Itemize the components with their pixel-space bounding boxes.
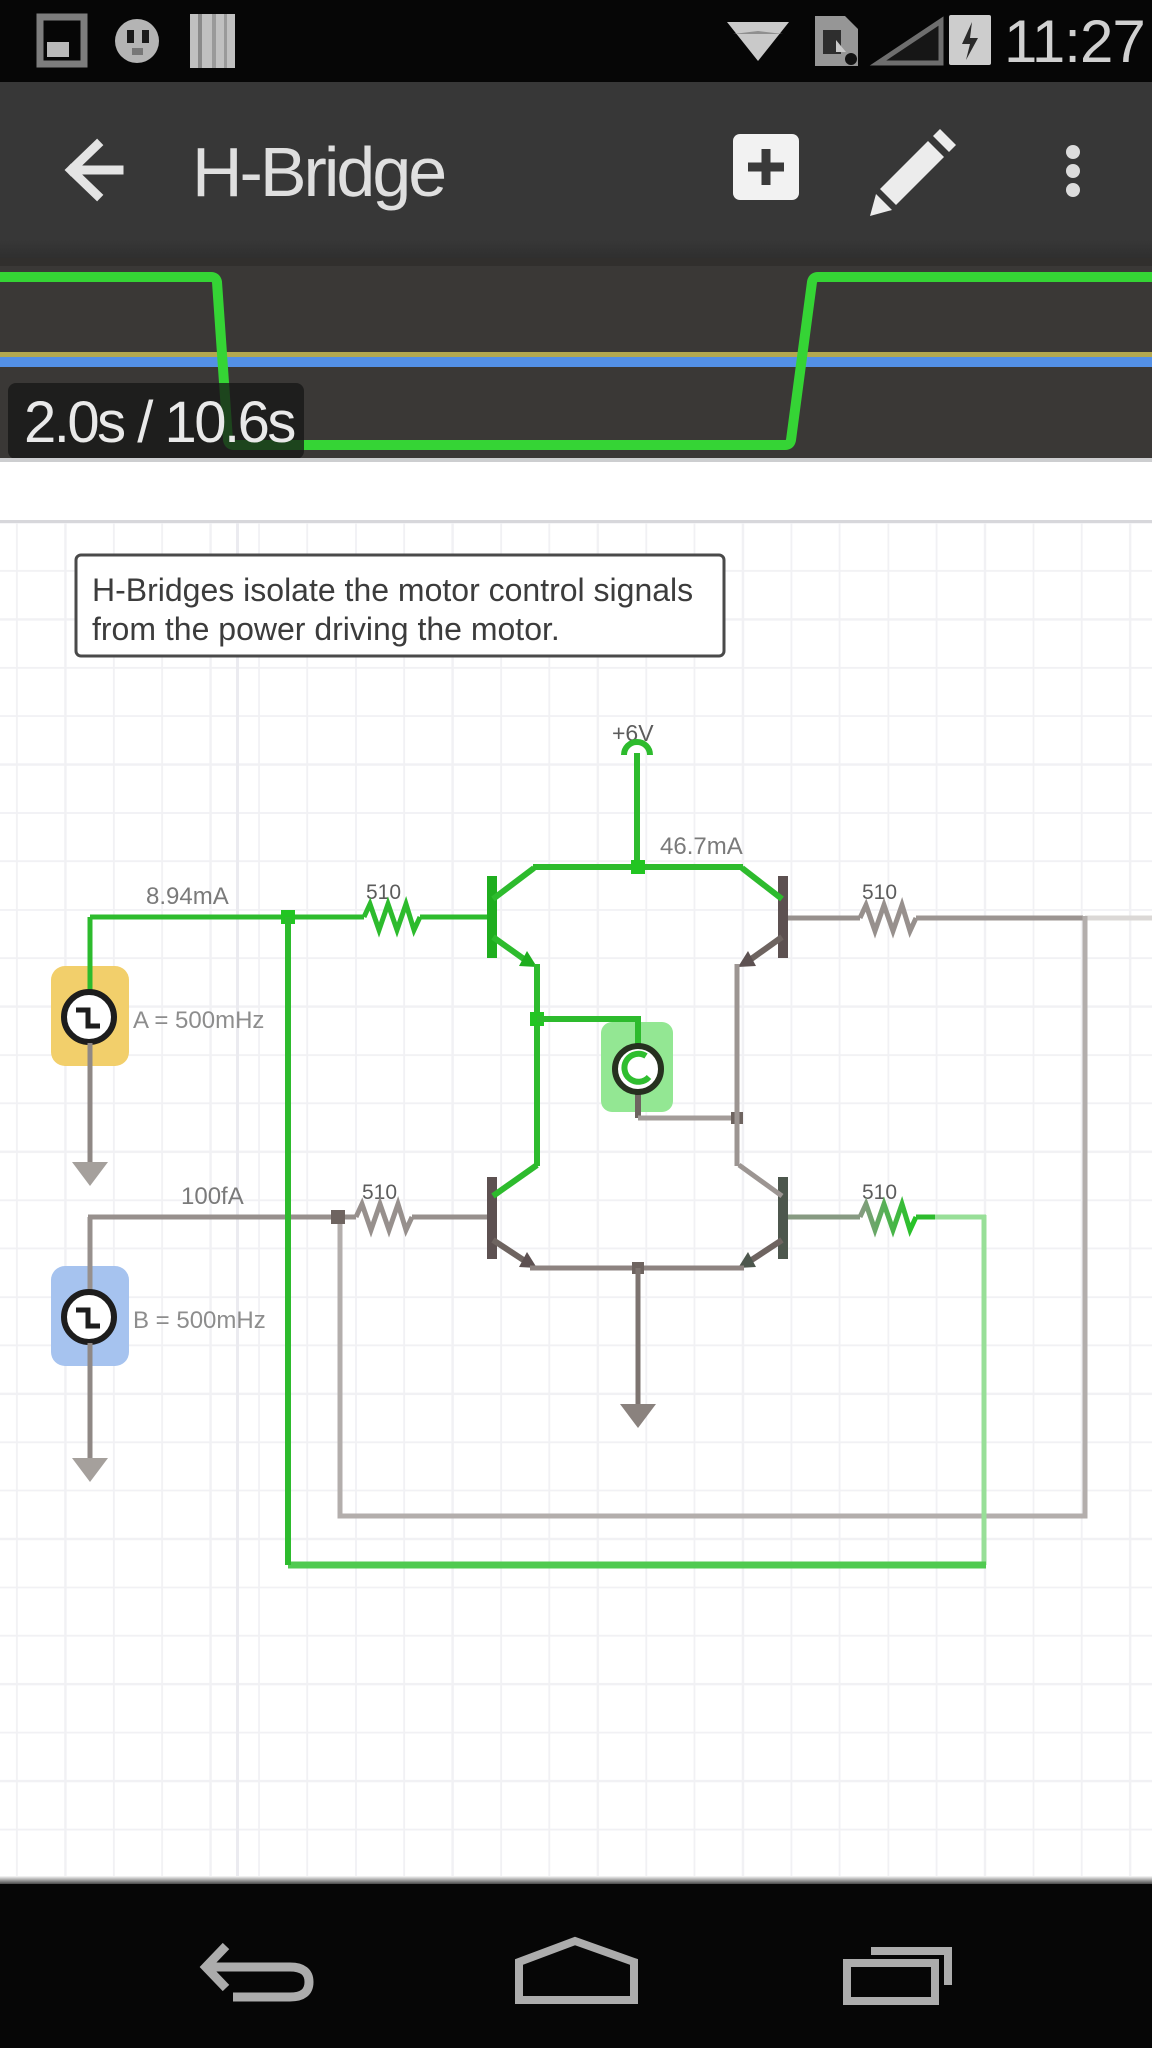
svg-text:from the power driving the mot: from the power driving the motor.: [92, 611, 560, 647]
faint wire stub right edge: [1085, 916, 1152, 921]
node junction motor top: [530, 1012, 544, 1026]
svg-text:11:27: 11:27: [1004, 8, 1145, 75]
wire right gray loop: [340, 916, 1085, 1516]
notification icon: document: [190, 14, 235, 68]
back arrow: [71, 145, 119, 195]
svg-text:8.94mA: 8.94mA: [146, 883, 229, 910]
plus button: [733, 134, 799, 200]
note box: [76, 555, 724, 656]
wire R1 to Q1 base: [420, 915, 488, 920]
nav home button: [519, 1941, 634, 2000]
overflow dots: [1066, 145, 1080, 159]
status bar: [0, 0, 1152, 82]
wire Q1 emitter down: [534, 964, 540, 1166]
svg-text:510: 510: [862, 881, 897, 904]
source B highlight: [51, 1266, 129, 1366]
ground (source B): [72, 1458, 108, 1482]
oscilloscope strip: [0, 258, 1152, 462]
wifi icon: [727, 22, 789, 61]
trace: blue: [0, 357, 1152, 367]
svg-text:H-Bridge: H-Bridge: [192, 133, 444, 211]
node junction bottom: [632, 1262, 644, 1274]
wire lower base rail (from B node): [88, 1215, 356, 1220]
svg-text:B = 500mHz: B = 500mHz: [133, 1307, 266, 1334]
wire green loop left vertical: [285, 917, 291, 1565]
wire motor bottom to right rail: [638, 1116, 737, 1121]
wire A source stub: [88, 917, 93, 993]
svg-text:A = 500mHz: A = 500mHz: [133, 1007, 264, 1034]
wire Q2 base: [788, 916, 860, 921]
svg-text:46.7mA: 46.7mA: [660, 833, 743, 860]
node junction top: [631, 860, 645, 874]
notification icon: screenshot: [40, 17, 84, 64]
trace: green square wave: [0, 277, 1152, 445]
transistor Q4 (lower-right, on): [738, 1165, 788, 1268]
wire green loop bottom: [288, 1562, 986, 1569]
transistor Q2 (upper-right, off): [738, 868, 788, 967]
ground (center): [620, 1404, 656, 1428]
source A (square wave source): [64, 992, 114, 1042]
wire Q2 emitter down right rail: [735, 964, 740, 1166]
notification icon: smiley: [115, 19, 159, 63]
motor M1: [615, 1044, 661, 1118]
ground (source A): [72, 1162, 108, 1186]
navigation bar: [0, 1876, 1152, 1884]
source A highlight: [51, 966, 129, 1066]
motor highlight: [601, 1022, 673, 1112]
power supply +6V symbol: [624, 742, 650, 755]
transistor Q3 (lower-left, off): [487, 1165, 537, 1268]
wire R3 to Q3 base: [412, 1215, 488, 1220]
transistor Q1 (upper-left NPN, on): [487, 868, 537, 967]
svg-text:H-Bridges isolate the motor co: H-Bridges isolate the motor control sign…: [92, 572, 693, 608]
wire Q4 base: [788, 1215, 860, 1220]
app toolbar: [0, 82, 1152, 258]
svg-text:2.0s / 10.6s: 2.0s / 10.6s: [24, 390, 294, 455]
source B (square wave source): [64, 1292, 114, 1342]
pencil icon: [880, 141, 944, 205]
top rail wire: [533, 864, 743, 870]
wire A to ground: [88, 1043, 93, 1164]
nav recents button: [847, 1963, 935, 2001]
wire R4 to green loop: [916, 1215, 937, 1220]
schematic svg overlay (page coordinates): [0, 462, 1152, 1884]
trace: yellow: [0, 352, 1152, 357]
wire B to ground: [88, 1343, 93, 1460]
wire B stub: [88, 1217, 93, 1293]
nav back button: [206, 1967, 309, 1997]
node junction right rail / motor: [731, 1112, 743, 1124]
sd card icon: [815, 16, 858, 66]
white gap + grid canvas: [0, 458, 1152, 462]
time label: [8, 383, 304, 459]
signal triangle: [878, 21, 941, 63]
node junction lower-left: [331, 1210, 345, 1224]
bottom rail wire: [530, 1266, 744, 1271]
wire green loop right vertical: [982, 1215, 987, 1565]
wire base A rail: [90, 915, 364, 920]
wire supply to top rail: [634, 753, 640, 867]
wire bottom to ground: [636, 1268, 641, 1406]
node junction A-rail: [281, 910, 295, 924]
wire R2 to right loop: [916, 916, 1083, 921]
svg-text:100fA: 100fA: [181, 1183, 244, 1210]
wire to motor top: [537, 1019, 638, 1048]
battery: [958, 21, 965, 27]
